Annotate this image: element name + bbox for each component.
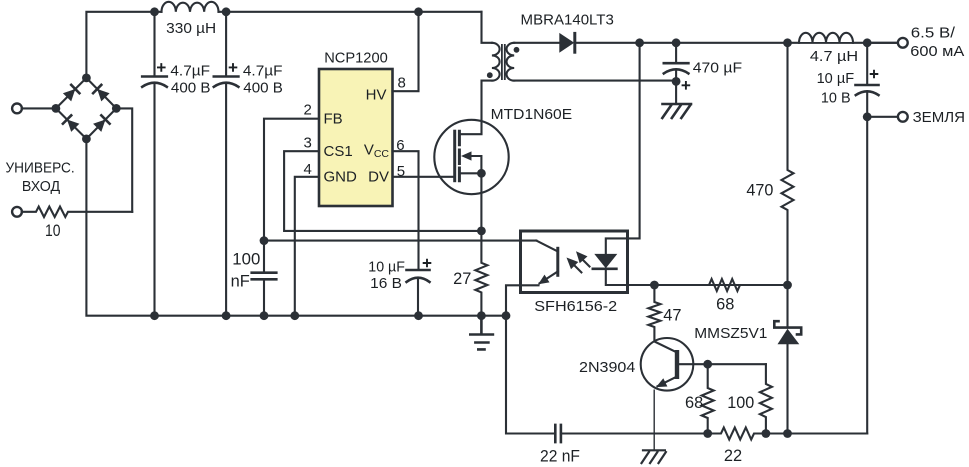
pin 8 HV stub and wire up to top rail xyxy=(393,12,419,91)
capacitor C2 4.7uF 400V xyxy=(214,12,239,316)
wire: right output column down to secondary ground rail xyxy=(866,43,868,434)
svg-text:68: 68 xyxy=(716,296,734,314)
opto phototransistor xyxy=(506,241,558,316)
inductor L2 4.7uH (covering top rail portion) xyxy=(800,33,853,42)
node: R2 top junction xyxy=(783,38,792,47)
svg-text:10 µF: 10 µF xyxy=(817,70,855,87)
wire: primary top rail with corner from bridge top xyxy=(86,12,481,78)
node: primary ground C2 bottom junction xyxy=(222,311,231,320)
node: primary ground R3 bottom junction xyxy=(477,311,486,320)
wire: opto emitter ground drop to secondary rail via C7 xyxy=(506,316,553,434)
phase dot primary xyxy=(487,72,493,78)
plus sign C1 xyxy=(157,63,166,72)
node: C3 top junction xyxy=(672,38,681,47)
diode D1 top-left of bridge xyxy=(63,85,80,102)
terminal: AC input top xyxy=(12,104,22,114)
svg-text:4: 4 xyxy=(303,161,311,178)
node: primary ground GND pin junction xyxy=(290,311,299,320)
node: secondary ground D6 bottom junction xyxy=(783,429,792,438)
node: FB junction dot xyxy=(260,236,269,245)
node: primary ground C1 bottom junction xyxy=(150,311,159,320)
opto LED xyxy=(593,43,788,285)
svg-text:4.7µF: 4.7µF xyxy=(243,62,283,79)
pin 3 CS1 stub and wire to MOSFET source node xyxy=(284,151,481,231)
chassis ground below C3 xyxy=(662,104,691,118)
svg-text:MMSZ5V1: MMSZ5V1 xyxy=(694,325,767,342)
capacitor C7 22nF xyxy=(555,425,561,442)
node: Q2 base dot xyxy=(703,360,712,369)
optocoupler U2 SFH6156-2 box xyxy=(521,231,628,293)
wire: primary bottom to MOSFET drain xyxy=(461,81,492,135)
svg-text:10 В: 10 В xyxy=(821,89,851,106)
svg-text:DV: DV xyxy=(368,169,389,186)
node: HV bus junction 3 xyxy=(414,7,423,16)
svg-text:10 µF: 10 µF xyxy=(368,259,405,276)
svg-text:ЗЕМЛЯ: ЗЕМЛЯ xyxy=(913,109,965,126)
resistor R6 68 (vertical) xyxy=(702,364,714,433)
capacitor C1 4.7uF 400V xyxy=(142,12,167,316)
wire: input top to bridge left node xyxy=(22,107,56,109)
diode D3 bottom-left of bridge xyxy=(63,115,80,131)
resistor R8 22 (in rail) xyxy=(708,428,788,440)
diode D5 MBRA140LT3 xyxy=(514,32,898,54)
resistor R4 68 (horizontal) xyxy=(654,279,787,291)
svg-text:MBRA140LT3: MBRA140LT3 xyxy=(521,11,614,28)
diode D2 top-right of bridge xyxy=(93,85,110,102)
node: LED feed junction xyxy=(635,38,644,47)
wire: bridge bottom to primary ground rail xyxy=(86,139,506,316)
transformer T1 primary winding xyxy=(492,43,500,81)
svg-text:2N3904: 2N3904 xyxy=(579,359,635,376)
node: CS/source junction dot xyxy=(477,227,486,236)
resistor R5 47 xyxy=(648,285,660,342)
svg-text:HV: HV xyxy=(366,86,387,103)
node: MOSFET source dot xyxy=(477,169,486,178)
wire: lower input up to bridge right node xyxy=(116,108,132,211)
inductor L1 330 uH xyxy=(162,2,219,12)
svg-text:100: 100 xyxy=(232,251,260,269)
node: primary ground opto emitter junction xyxy=(502,311,511,320)
svg-text:SFH6156-2: SFH6156-2 xyxy=(534,298,617,315)
svg-text:4.7 µH: 4.7 µH xyxy=(810,48,858,65)
svg-text:УНИВЕРС.: УНИВЕРС. xyxy=(6,159,75,176)
node: C3 bottom junction xyxy=(672,77,681,86)
svg-text:6.5 В/: 6.5 В/ xyxy=(911,25,956,42)
plus sign C2 xyxy=(229,63,238,72)
capacitor C4 10uF 10V xyxy=(856,85,879,95)
svg-text:6: 6 xyxy=(396,137,404,154)
svg-text:470: 470 xyxy=(746,182,773,200)
svg-text:5: 5 xyxy=(397,163,405,180)
pin 6 VCC stub and wire down to C5 xyxy=(393,151,419,270)
svg-text:68: 68 xyxy=(685,394,703,412)
svg-text:FB: FB xyxy=(324,111,343,128)
svg-text:27: 27 xyxy=(453,270,471,288)
op IC U1 NCP1200 box xyxy=(319,69,393,206)
node: bridge right junction xyxy=(112,104,121,113)
phase dot secondary xyxy=(514,47,520,53)
svg-text:MTD1N60E: MTD1N60E xyxy=(491,106,572,123)
node: L2 out junction xyxy=(863,38,872,47)
diode D4 bottom-right of bridge xyxy=(93,115,110,131)
wire: rail from zener bottom to right column xyxy=(788,432,868,434)
plus sign C4 xyxy=(870,70,879,79)
svg-text:47: 47 xyxy=(663,307,681,325)
terminal: +6.5V output xyxy=(867,42,898,44)
wire: secondary bottom to C3 xyxy=(514,80,676,82)
pin 4 GND stub and wire to ground rail xyxy=(295,177,319,316)
transformer T1 secondary winding xyxy=(507,43,515,81)
svg-text:22 nF: 22 nF xyxy=(540,447,580,465)
capacitor C6 10uF 16V xyxy=(407,270,430,316)
svg-text:330 µH: 330 µH xyxy=(166,20,216,37)
terminal: ZEMLYA (ground) xyxy=(867,116,898,118)
earth ground symbol (primary) xyxy=(470,316,493,350)
resistor R7 100 xyxy=(708,363,766,365)
svg-text:nF: nF xyxy=(231,272,250,290)
svg-text:470 µF: 470 µF xyxy=(693,59,742,76)
node: primary ground C5 bottom junction xyxy=(260,311,269,320)
svg-text:10: 10 xyxy=(45,222,61,240)
resistor 10 (input) xyxy=(22,207,133,217)
node: HV bus junction 1 xyxy=(150,7,159,16)
node: secondary ground R7 bottom junction xyxy=(762,429,771,438)
node: bridge left junction xyxy=(52,104,61,113)
plus sign C6 xyxy=(423,259,432,268)
svg-text:CS1: CS1 xyxy=(324,143,353,160)
node: R4 / D6 cathode junction xyxy=(783,281,792,290)
transistor Q1 MTD1N60E MOSFET xyxy=(434,120,508,231)
svg-text:8: 8 xyxy=(398,75,406,92)
node: output ground junction xyxy=(863,112,872,121)
svg-text:2: 2 xyxy=(303,101,311,118)
transistor Q2 2N3904 xyxy=(641,338,708,450)
svg-text:NCP1200: NCP1200 xyxy=(324,49,388,66)
svg-text:22: 22 xyxy=(724,447,742,465)
wire: top rail corner down to transformer primary xyxy=(482,12,492,43)
bridge rectifier frame xyxy=(56,78,116,139)
plus sign C3 xyxy=(682,81,691,90)
svg-text:16 В: 16 В xyxy=(370,275,402,292)
node: LED cathode / R5 top junction xyxy=(650,281,659,290)
terminal: AC input bottom xyxy=(12,207,22,217)
resistor R3 27 xyxy=(475,231,487,316)
opto light arrows xyxy=(567,251,590,272)
svg-text:400 В: 400 В xyxy=(243,80,283,97)
wire: FB line to opto collector xyxy=(264,240,536,242)
svg-text:600 мА: 600 мА xyxy=(910,43,964,60)
transformer T1 core xyxy=(502,44,505,80)
node: primary ground C6 bottom junction xyxy=(414,311,423,320)
svg-text:3: 3 xyxy=(303,135,311,152)
svg-text:4.7µF: 4.7µF xyxy=(170,62,210,79)
node: bridge bottom junction xyxy=(82,135,91,144)
zener D6 MMSZ5V1 xyxy=(774,285,801,434)
node: HV bus junction 2 xyxy=(222,7,231,16)
svg-text:400 В: 400 В xyxy=(171,80,211,97)
capacitor C5 100nF xyxy=(252,273,277,316)
svg-text:GND: GND xyxy=(324,169,358,186)
resistor R2 470 xyxy=(782,43,794,285)
node: bridge top junction xyxy=(82,74,91,83)
pin 5 DV stub to MOSFET gate xyxy=(393,176,455,178)
capacitor C3 470uF xyxy=(664,43,689,104)
svg-text:ВХОД: ВХОД xyxy=(22,178,60,195)
node: secondary ground R6 bottom junction xyxy=(703,429,712,438)
chassis ground below Q2 emitter xyxy=(641,450,667,464)
pin 2 FB stub and wire down xyxy=(264,119,319,272)
svg-text:100: 100 xyxy=(727,394,754,412)
